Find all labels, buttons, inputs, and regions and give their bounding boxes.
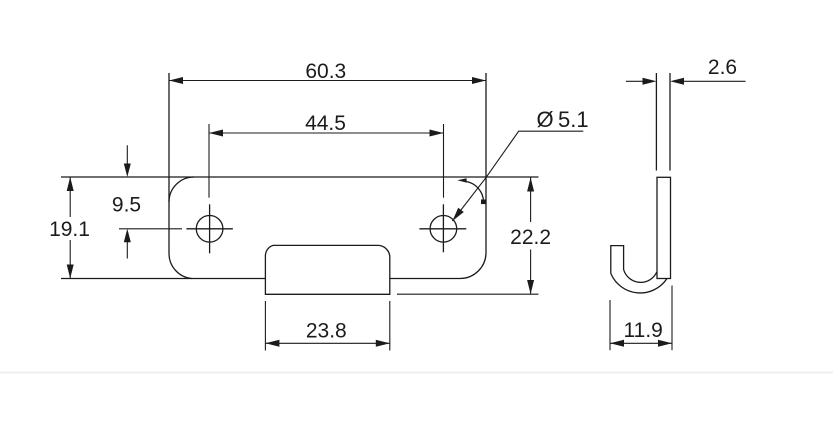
dim 22.2 top arrow <box>527 178 534 192</box>
side view lower strip rectangle <box>657 177 671 278</box>
side view hook left arm <box>611 246 624 274</box>
side view hook outer arc <box>611 274 667 293</box>
dim 9.5 upper arrow line <box>126 145 128 173</box>
dim 11.9 left extension line <box>609 300 611 350</box>
dim 11.9 right arrow <box>658 340 672 347</box>
svg-text:19.1: 19.1 <box>49 218 90 241</box>
hole right crosshair horizontal <box>419 228 466 230</box>
dim 9.5 lower arrow line <box>126 232 128 259</box>
plate bottom edge right portion <box>390 278 460 280</box>
dim 44.5 left arrow <box>209 130 223 137</box>
dim 22.2 line upper segment <box>530 177 532 222</box>
hole left crosshair horizontal <box>186 228 233 230</box>
hole right crosshair vertical <box>442 204 444 252</box>
faint page divider line <box>0 372 833 374</box>
dim 60.3 line <box>169 80 486 82</box>
svg-text:23.8: 23.8 <box>306 320 347 343</box>
dim 23.8 right arrow <box>376 340 390 347</box>
svg-text:11.9: 11.9 <box>624 319 663 342</box>
dim 11.9 left arrow <box>610 340 624 347</box>
svg-text:60.3: 60.3 <box>305 60 346 83</box>
plate top edge with left 19.1 extension and right 22.2 extension <box>61 176 539 178</box>
hole right circle <box>430 216 457 243</box>
svg-text:9.5: 9.5 <box>112 194 141 217</box>
dim 60.3 left arrow <box>169 77 183 84</box>
dim 2.6 right arrowhead (left pointing) <box>670 78 684 85</box>
svg-text:2.6: 2.6 <box>708 56 737 79</box>
svg-text:Ø 5.1: Ø 5.1 <box>537 107 589 132</box>
dim 44.5 right extension line <box>443 124 445 198</box>
leader line for hole diameter <box>452 131 583 221</box>
dim 22.2 bottom arrow <box>527 280 534 294</box>
plate top-right corner fillet arc with arrowhead and end blob <box>457 178 485 204</box>
dim 11.9 line <box>610 342 672 344</box>
hole left crosshair vertical <box>209 204 211 253</box>
side view upper strip left line <box>655 73 657 171</box>
dim 19.1 line upper segment <box>69 177 71 217</box>
dim 22.2 line lower segment <box>530 250 532 295</box>
dim 2.6 right arrow line <box>673 80 746 82</box>
dim 9.5 lower arrowhead (up) <box>124 229 131 243</box>
dim 9.5 upper arrowhead (down) <box>124 164 131 178</box>
dim 2.6 left arrowhead (right pointing) <box>643 78 657 85</box>
plate left edge merged with 60.3 left extension line <box>168 73 170 254</box>
dim 60.3 right arrow <box>472 77 486 84</box>
plate bottom-right corner fillet arc <box>460 253 486 279</box>
dim 23.8 right extension line <box>389 301 391 351</box>
leader arrowhead <box>452 208 463 221</box>
dim 23.8 left arrow <box>265 340 279 347</box>
dim 44.5 line <box>209 132 444 134</box>
dim 44.5 left extension line <box>208 124 210 198</box>
dim 19.1 bottom arrow <box>67 265 74 279</box>
plate bottom-left corner fillet arc <box>169 254 192 279</box>
svg-text:44.5: 44.5 <box>305 112 346 135</box>
side view upper strip right line <box>669 73 671 171</box>
plate right edge merged with 60.3 right extension line <box>485 73 487 253</box>
dim 11.9 right extension line <box>671 286 673 351</box>
side view hook inner arc <box>624 270 657 283</box>
dim 23.8 left extension line <box>264 301 266 351</box>
dim 23.8 line <box>265 342 389 344</box>
hole left circle <box>196 216 223 243</box>
dim 19.1 top arrow <box>67 177 74 191</box>
dim 2.6 left arrow line <box>626 80 653 82</box>
plate bottom edge left portion with 19.1 extension <box>61 278 265 280</box>
tab outline (23.8 wide bump) <box>265 245 389 294</box>
dim 19.1 line lower segment <box>69 240 71 279</box>
dim 44.5 right arrow <box>430 130 444 137</box>
plate top-left corner fillet arc <box>169 177 194 202</box>
svg-text:22.2: 22.2 <box>510 226 551 249</box>
dim 22.2 bottom extension line (tab bottom extended right) <box>397 293 539 295</box>
dim 9.5 hole-center extension line <box>119 228 182 230</box>
